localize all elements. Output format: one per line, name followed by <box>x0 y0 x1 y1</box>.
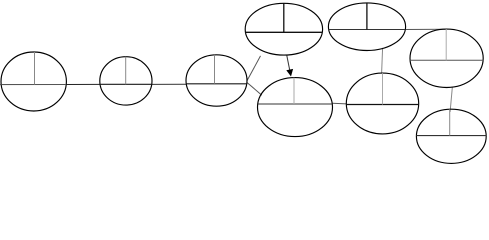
wire: E to H <box>332 102 346 105</box>
wire: F to G <box>405 28 445 30</box>
wire: B to C <box>152 83 187 85</box>
wire: F to H <box>382 48 383 73</box>
wire: A to B <box>66 83 100 85</box>
node I <box>416 109 486 163</box>
node H <box>346 73 418 134</box>
node A <box>1 52 66 111</box>
arrow D to E (shaft) <box>287 56 290 72</box>
node B <box>100 57 152 105</box>
arrowhead D to E <box>286 69 293 77</box>
node E <box>258 78 333 137</box>
wire: C to E <box>247 82 262 95</box>
node D <box>245 3 322 55</box>
node F <box>328 3 405 51</box>
wire: left border into node A <box>0 84 66 86</box>
node G <box>410 29 483 87</box>
wire: G to I <box>450 87 452 112</box>
wire: C to D <box>247 56 261 81</box>
node C <box>186 55 247 106</box>
